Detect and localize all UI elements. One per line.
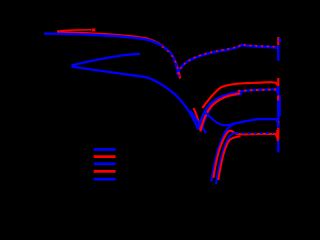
right vertical spike upper blue blob — [279, 38, 281, 42]
top family: short upper red curve — [57, 30, 91, 31]
middle family: blue rising branch to flat right — [198, 89, 278, 129]
legend sample line 4 (red) — [94, 170, 116, 173]
top family: red dashed overlay on descent into dip — [162, 47, 179, 77]
legend sample line 1 (blue) — [94, 148, 116, 151]
right vertical spike lower: blue side part — [279, 95, 281, 116]
middle family: red rising companion merging — [200, 93, 240, 131]
top family: blue rising branch after dip to flat right — [177, 45, 277, 75]
bottom family: blue backward-sweep line from upper left joining flat top — [204, 111, 235, 125]
legend sample line 3 (blue) — [94, 162, 116, 165]
bottom family: red left steep line a joining red flat band — [213, 131, 277, 178]
right vertical spike upper red segment — [277, 37, 279, 53]
right vertical spike lower: red side part — [276, 130, 278, 138]
top family: blob at end of upper red curve — [92, 29, 96, 32]
bottom family: left steep red line b — [218, 136, 240, 180]
top family: red forward sweep descending to dip — [57, 32, 180, 78]
bottom family: blue dashed overlay on red band — [236, 132, 273, 134]
bottom family: left steep blue line b — [216, 133, 236, 185]
right vertical spike lower: red part — [277, 121, 279, 141]
bottom family: blue left steep line a joining flat top line — [211, 119, 278, 182]
legend sample line 5 (blue) — [94, 178, 116, 181]
middle family: second blue rising branch — [202, 94, 242, 130]
top family: red dashed overlay on rising branch — [178, 44, 277, 74]
middle family: second blue descending branch crossing at dip — [191, 111, 207, 134]
right vertical spike lower: blue main part — [277, 86, 279, 122]
right vertical spike lower: blue bottom tip — [277, 139, 279, 153]
right vertical spike lower: red top part — [277, 78, 279, 88]
middle family: blue upper-left branch — [72, 54, 141, 66]
middle family: red companion near dip — [194, 108, 201, 131]
middle family: red top flat line — [203, 82, 278, 108]
middle family: red dashed overlay on blue flat — [238, 89, 276, 90]
right vertical spike lower: small red tick — [277, 96, 279, 101]
legend sample line 2 (red) — [94, 155, 116, 158]
right vertical spike upper blue segment — [277, 45, 279, 61]
top family: blue forward sweep descending to dip — [44, 34, 179, 77]
middle family: blue lower-left branch descending to dip — [72, 67, 199, 130]
